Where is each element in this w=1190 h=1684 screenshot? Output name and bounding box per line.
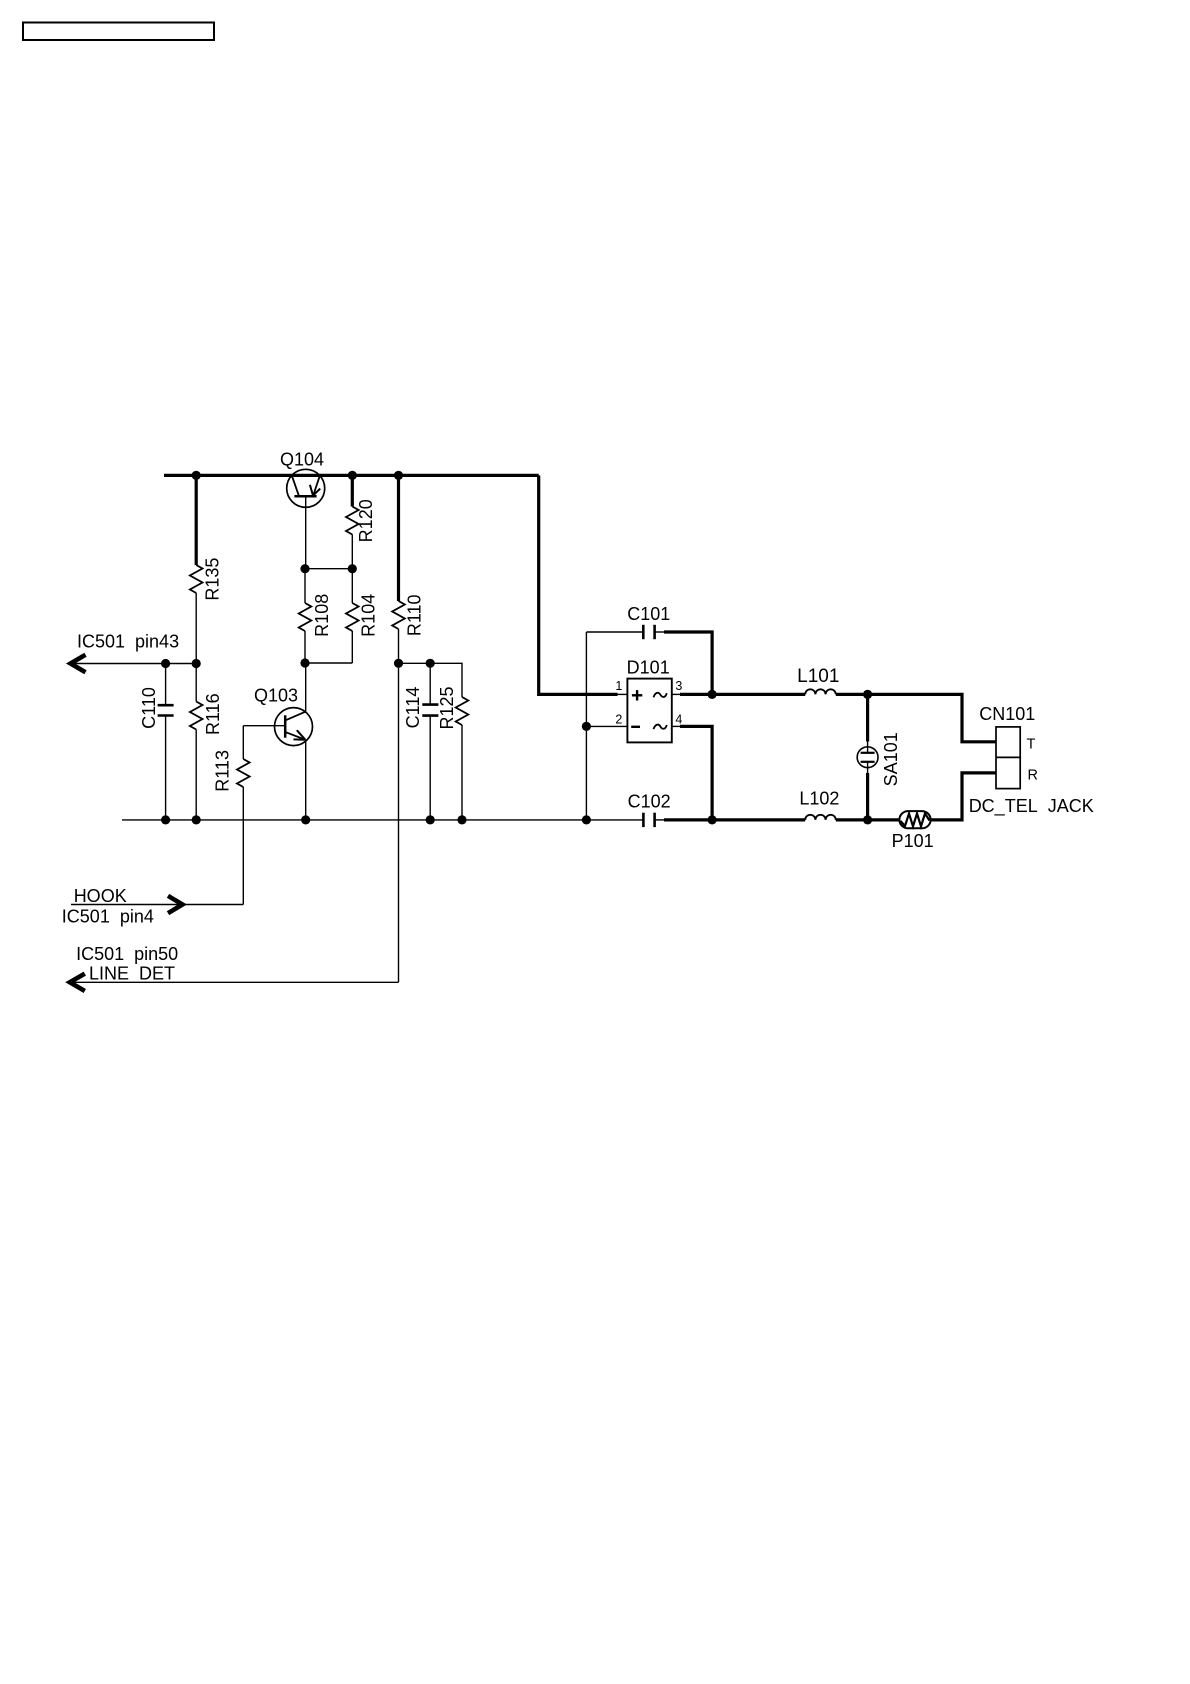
svg-text:R116: R116 [203,693,223,735]
wire: top rail (Q104 collector/emitter rail) [164,474,539,477]
svg-text:L102: L102 [799,789,839,809]
wire: LINE DET lead [70,981,399,983]
node junction C114/rail [426,815,435,824]
arrow LINE DET (left chevron) [70,974,85,991]
D101 minus mark [631,726,640,728]
wire: SA101 top lead (thick) [866,694,869,741]
diode bridge D101 [627,679,671,743]
svg-text:1: 1 [615,679,622,693]
inductor L101 [805,689,836,694]
svg-text:4: 4 [675,712,682,726]
wire: bottom rail [122,819,643,821]
svg-text:R104: R104 [359,594,379,637]
svg-text:R: R [1028,768,1038,784]
wire: L102 to P101 (thick) [836,818,900,821]
svg-text:C101: C101 [627,604,670,624]
capacitor C110 [158,664,174,820]
svg-text:IC501 pin43: IC501 pin43 [77,632,179,652]
svg-text:R108: R108 [312,594,332,637]
svg-text:R135: R135 [203,558,223,601]
resistor R113 [237,759,250,787]
wire: pin3 net to L101 (thick) [680,693,805,696]
wire: R135 top segment (thick) [195,475,198,565]
wire: thick vertical from top rail down to D101 pin1 [539,475,618,694]
node junction R116/rail [192,815,201,824]
svg-text:P101: P101 [892,831,934,851]
svg-text:R125: R125 [437,686,457,729]
svg-text:C102: C102 [628,792,671,812]
wire: HOOK lead with underline [71,904,243,906]
node junction C102/pin4/L102 [708,815,717,824]
svg-text:L101: L101 [797,666,839,687]
svg-text:D101: D101 [627,657,670,677]
node junction R110/C114/LINE DET [394,659,403,668]
transistor Q104 [287,469,325,568]
node junction R135/top rail [192,471,201,480]
svg-text:DC_TEL JACK: DC_TEL JACK [969,796,1094,817]
node junction SA101 top [863,690,872,699]
svg-text:Q104: Q104 [280,450,324,470]
svg-text:Q103: Q103 [254,686,298,706]
svg-text:T: T [1027,737,1036,753]
svg-text:IC501 pin50: IC501 pin50 [76,944,178,964]
wire: IC501 pin43 lead [71,663,197,665]
svg-text:CN101: CN101 [979,704,1035,724]
node junction R108/R104/Q103 collector [300,658,309,667]
wire: R120 bottom segment [351,535,353,569]
wire: LINE DET vertical to R110 node [398,663,400,982]
pin 4 stub [672,725,681,727]
connector CN101 [996,727,1020,789]
node junction SA101 bottom [863,815,872,824]
wire: Q103 collector from R108 node [305,663,307,712]
transistor Q103 [275,708,313,820]
D101 plus mark [632,690,642,700]
node junction Q104 base/R108 top [300,564,309,573]
wire: Q104 base to R120 bottom [305,568,352,570]
wire: node to R125 top [399,663,463,697]
resistor R125 [456,697,469,820]
wire: SA101 bottom lead (thick) [866,773,869,820]
svg-text:C114: C114 [403,687,423,729]
wire: base down to R113 [242,726,244,759]
node junction C114 top [426,659,435,668]
wire: R104 bottom to Q103 collector node [305,662,352,664]
wire: pin4 net down to C102 right (thick) [680,726,712,820]
arrow HOOK (right chevron) [168,896,183,913]
svg-text:2: 2 [615,712,622,726]
resistor R116 [190,664,203,820]
resistor R108 [299,569,312,663]
svg-text:C110: C110 [139,687,159,729]
resistor R104 [346,569,359,663]
capacitor C101 [586,625,664,639]
node junction C101/pin3 [708,690,717,699]
node junction C110/rail [161,815,170,824]
node junction R135/R116 [192,659,201,668]
wire: C101 left branch down to pin2/rail [585,632,587,820]
wire: R110 top segment (thick) [397,475,400,601]
D101 AC mark bottom [654,725,667,730]
node junction R125/rail [457,815,466,824]
node junction R120 bottom [348,564,357,573]
svg-text:LINE DET: LINE DET [89,964,175,984]
resistor R110 [392,601,405,629]
wire: R113 bottom to HOOK line [242,787,244,905]
node junction R120/top rail [348,471,357,480]
node junction R110/top rail [394,471,403,480]
wire: C101 right branch (thick) to pin3 net [664,632,712,694]
pin 3 stub [672,693,681,695]
pin 2 wire [586,725,627,727]
title box top-left [23,23,214,41]
svg-text:R113: R113 [213,750,233,792]
svg-text:3: 3 [675,679,682,693]
arrow to IC501 pin43 (left chevron) [71,655,86,672]
wire: R135 bottom segment [195,593,197,664]
svg-text:R120: R120 [356,499,376,542]
capacitor C114 [422,663,438,820]
node junction C101 branch/pin2 [582,722,591,731]
node junction C110 top [161,659,170,668]
surge arrester SA101 [857,742,878,773]
wire: R120 top segment (thick) [351,475,354,506]
wire: P101 to CN101 R (thick) [931,773,996,820]
pin 1 stub [617,693,628,695]
wire: C102 right to L102 (thick) [664,818,805,821]
wire: L101 to CN101 T (thick) [836,694,996,741]
svg-text:R110: R110 [405,594,425,636]
node junction C101 branch/rail [582,815,591,824]
svg-text:IC501 pin4: IC501 pin4 [62,907,154,927]
D101 AC mark top [654,693,667,698]
inductor L102 [805,815,836,820]
resistor R120 [346,507,359,535]
fuse P101 [899,811,930,828]
wire: R110 bottom segment [398,629,400,663]
resistor R135 [190,565,203,593]
wire: Q103 base lead [243,725,285,727]
node junction Q103 emitter/rail [301,815,310,824]
svg-text:HOOK: HOOK [74,886,127,906]
capacitor C102 [643,813,664,827]
svg-text:SA101: SA101 [881,732,901,786]
